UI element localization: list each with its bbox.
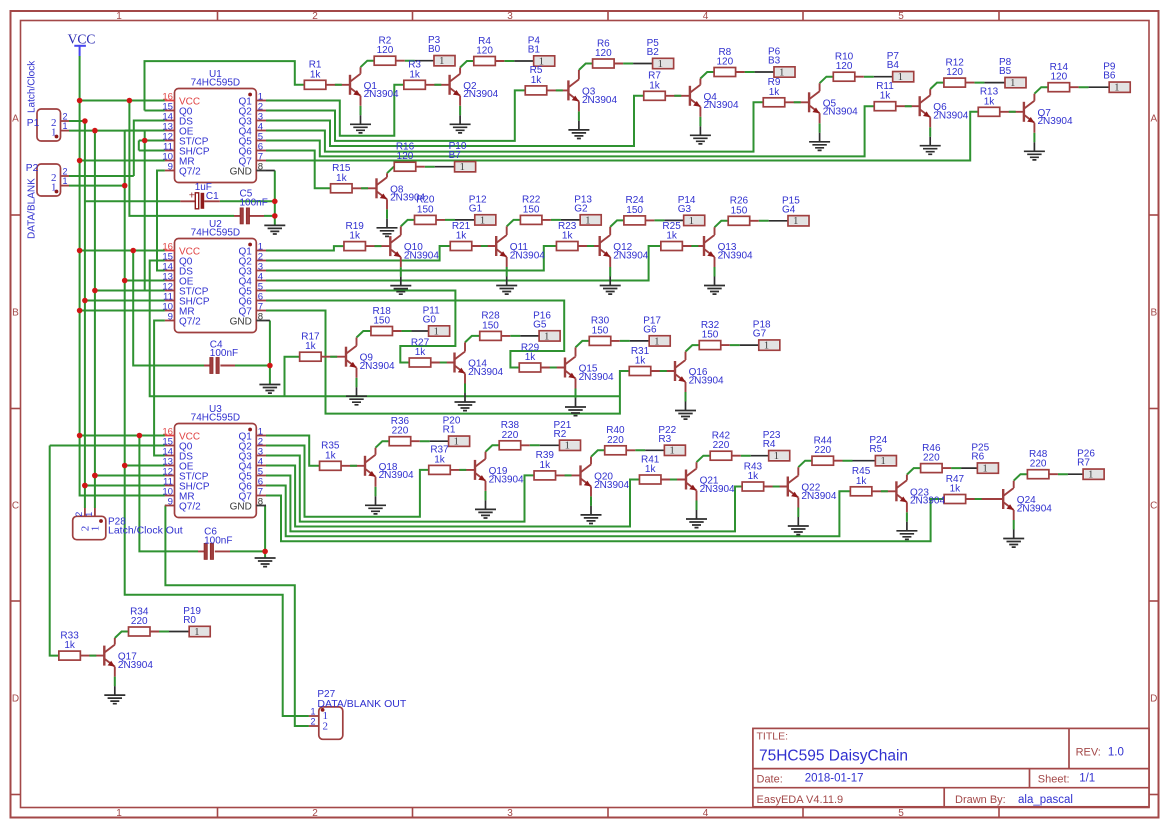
svg-text:1k: 1k bbox=[525, 352, 537, 363]
svg-text:P1: P1 bbox=[27, 118, 40, 129]
svg-text:1: 1 bbox=[793, 216, 798, 227]
svg-text:G7: G7 bbox=[753, 329, 767, 340]
svg-text:R7: R7 bbox=[1077, 458, 1090, 469]
svg-text:Latch/Clock: Latch/Clock bbox=[27, 60, 38, 113]
svg-text:VCC: VCC bbox=[68, 32, 96, 47]
svg-text:100nF: 100nF bbox=[210, 348, 238, 359]
svg-text:75HC595 DaisyChain: 75HC595 DaisyChain bbox=[759, 748, 908, 765]
svg-text:120: 120 bbox=[1051, 72, 1068, 83]
svg-text:1: 1 bbox=[1010, 78, 1015, 89]
svg-text:2N3904: 2N3904 bbox=[910, 496, 945, 507]
svg-text:1k: 1k bbox=[984, 96, 996, 107]
svg-text:1/1: 1/1 bbox=[1079, 773, 1095, 785]
svg-text:4: 4 bbox=[703, 11, 709, 22]
svg-text:2N3904: 2N3904 bbox=[489, 474, 524, 485]
svg-text:2N3904: 2N3904 bbox=[364, 89, 399, 100]
svg-text:1: 1 bbox=[898, 72, 903, 83]
svg-text:A: A bbox=[1150, 114, 1157, 125]
svg-text:1: 1 bbox=[63, 176, 68, 186]
svg-text:B5: B5 bbox=[999, 66, 1012, 77]
svg-text:2N3904: 2N3904 bbox=[718, 250, 753, 261]
svg-text:GND: GND bbox=[230, 317, 252, 328]
svg-text:1k: 1k bbox=[635, 356, 647, 367]
svg-text:G1: G1 bbox=[469, 203, 483, 214]
svg-text:1: 1 bbox=[689, 216, 694, 227]
svg-text:B1: B1 bbox=[528, 45, 541, 56]
svg-text:EasyEDA V4.11.9: EasyEDA V4.11.9 bbox=[757, 794, 844, 806]
svg-text:120: 120 bbox=[476, 46, 493, 57]
svg-text:2: 2 bbox=[63, 167, 68, 177]
svg-text:2N3904: 2N3904 bbox=[579, 372, 614, 383]
svg-text:1k: 1k bbox=[310, 69, 322, 80]
svg-text:150: 150 bbox=[702, 330, 719, 341]
svg-text:1: 1 bbox=[439, 56, 444, 67]
svg-text:Q7/2: Q7/2 bbox=[179, 317, 201, 328]
svg-text:100nF: 100nF bbox=[204, 536, 232, 547]
svg-text:1: 1 bbox=[311, 707, 316, 717]
svg-text:74HC595D: 74HC595D bbox=[191, 227, 240, 238]
svg-text:C1: C1 bbox=[206, 191, 219, 202]
svg-text:150: 150 bbox=[626, 205, 643, 216]
svg-text:1: 1 bbox=[585, 215, 590, 226]
svg-text:1: 1 bbox=[51, 181, 57, 193]
svg-text:2: 2 bbox=[312, 11, 318, 22]
svg-text:1: 1 bbox=[116, 11, 122, 22]
svg-text:120: 120 bbox=[377, 45, 394, 56]
svg-text:3: 3 bbox=[507, 808, 513, 819]
svg-text:120: 120 bbox=[397, 151, 414, 162]
svg-text:1: 1 bbox=[880, 456, 885, 467]
svg-text:2: 2 bbox=[323, 721, 329, 733]
svg-text:2: 2 bbox=[74, 512, 84, 517]
svg-text:120: 120 bbox=[836, 61, 853, 72]
svg-text:2: 2 bbox=[311, 717, 316, 727]
svg-text:1k: 1k bbox=[540, 460, 552, 471]
svg-text:220: 220 bbox=[1030, 459, 1047, 470]
svg-text:R6: R6 bbox=[971, 452, 984, 463]
svg-text:G0: G0 bbox=[423, 315, 437, 326]
svg-text:Sheet:: Sheet: bbox=[1038, 773, 1070, 785]
svg-text:B: B bbox=[1150, 308, 1157, 319]
svg-text:2N3904: 2N3904 bbox=[404, 251, 439, 262]
svg-text:220: 220 bbox=[607, 435, 624, 446]
svg-text:120: 120 bbox=[717, 57, 734, 68]
svg-text:74HC595D: 74HC595D bbox=[191, 77, 240, 88]
svg-text:74HC595D: 74HC595D bbox=[191, 412, 240, 423]
svg-text:120: 120 bbox=[946, 67, 963, 78]
svg-text:1k: 1k bbox=[769, 87, 781, 98]
svg-text:150: 150 bbox=[523, 204, 540, 215]
svg-text:REV:: REV: bbox=[1076, 746, 1101, 758]
svg-text:1k: 1k bbox=[64, 640, 76, 651]
svg-text:B2: B2 bbox=[647, 47, 660, 58]
svg-text:R0: R0 bbox=[183, 615, 196, 626]
svg-text:1: 1 bbox=[774, 451, 779, 462]
svg-text:1: 1 bbox=[764, 341, 769, 352]
svg-text:TITLE:: TITLE: bbox=[757, 731, 789, 743]
svg-text:1k: 1k bbox=[349, 231, 361, 242]
svg-text:8: 8 bbox=[258, 312, 263, 323]
svg-text:B: B bbox=[12, 308, 19, 319]
svg-text:A: A bbox=[12, 114, 19, 125]
svg-text:C: C bbox=[1150, 501, 1157, 512]
svg-text:1k: 1k bbox=[649, 80, 661, 91]
svg-text:5: 5 bbox=[898, 11, 904, 22]
svg-text:2: 2 bbox=[63, 112, 68, 122]
svg-text:1k: 1k bbox=[562, 231, 574, 242]
svg-text:2N3904: 2N3904 bbox=[1017, 503, 1052, 514]
svg-text:2N3904: 2N3904 bbox=[689, 375, 724, 386]
svg-text:220: 220 bbox=[923, 453, 940, 464]
svg-text:R1: R1 bbox=[443, 425, 456, 436]
svg-text:8: 8 bbox=[258, 497, 263, 508]
svg-text:2N3904: 2N3904 bbox=[700, 484, 735, 495]
svg-text:R3: R3 bbox=[658, 434, 671, 445]
svg-text:2N3904: 2N3904 bbox=[823, 107, 858, 118]
svg-text:2N3904: 2N3904 bbox=[1038, 116, 1073, 127]
svg-text:D: D bbox=[12, 694, 19, 705]
svg-text:1: 1 bbox=[544, 331, 549, 342]
svg-text:1: 1 bbox=[51, 126, 57, 138]
svg-text:1k: 1k bbox=[409, 69, 421, 80]
svg-text:B6: B6 bbox=[1103, 71, 1116, 82]
svg-text:Q7/2: Q7/2 bbox=[179, 167, 201, 178]
svg-text:5: 5 bbox=[898, 808, 904, 819]
svg-text:150: 150 bbox=[731, 205, 748, 216]
svg-text:C: C bbox=[12, 501, 19, 512]
svg-text:150: 150 bbox=[417, 204, 434, 215]
svg-text:Date:: Date: bbox=[757, 773, 783, 785]
svg-text:4: 4 bbox=[703, 808, 709, 819]
svg-text:2N3904: 2N3904 bbox=[613, 250, 648, 261]
svg-text:1: 1 bbox=[454, 437, 459, 448]
svg-text:1: 1 bbox=[84, 512, 94, 517]
svg-text:9: 9 bbox=[168, 497, 173, 508]
svg-text:2N3904: 2N3904 bbox=[379, 470, 414, 481]
svg-text:150: 150 bbox=[482, 320, 499, 331]
svg-text:220: 220 bbox=[131, 616, 148, 627]
svg-text:2: 2 bbox=[312, 808, 318, 819]
svg-text:220: 220 bbox=[392, 426, 409, 437]
svg-text:1: 1 bbox=[654, 336, 659, 347]
svg-text:1: 1 bbox=[63, 121, 68, 131]
svg-text:G6: G6 bbox=[643, 324, 657, 335]
svg-text:1k: 1k bbox=[456, 231, 468, 242]
svg-text:1k: 1k bbox=[336, 173, 348, 184]
svg-text:ala_pascal: ala_pascal bbox=[1018, 794, 1073, 806]
svg-text:Drawn By:: Drawn By: bbox=[955, 794, 1006, 806]
svg-text:2N3904: 2N3904 bbox=[704, 100, 739, 111]
svg-text:1: 1 bbox=[460, 162, 465, 173]
svg-text:150: 150 bbox=[592, 325, 609, 336]
svg-text:1: 1 bbox=[565, 441, 570, 452]
svg-text:100nF: 100nF bbox=[240, 198, 268, 209]
svg-text:1k: 1k bbox=[434, 454, 446, 465]
svg-text:DATA/BLANK: DATA/BLANK bbox=[27, 178, 38, 239]
svg-text:R4: R4 bbox=[763, 439, 776, 450]
svg-text:150: 150 bbox=[373, 316, 390, 327]
svg-text:220: 220 bbox=[502, 430, 519, 441]
svg-text:D: D bbox=[1150, 694, 1157, 705]
svg-text:2N3904: 2N3904 bbox=[594, 480, 629, 491]
svg-text:1: 1 bbox=[982, 464, 987, 475]
svg-text:1: 1 bbox=[194, 627, 199, 638]
svg-text:9: 9 bbox=[168, 162, 173, 173]
svg-text:1k: 1k bbox=[531, 75, 543, 86]
svg-text:G2: G2 bbox=[574, 203, 588, 214]
svg-text:1: 1 bbox=[116, 808, 122, 819]
svg-text:B7: B7 bbox=[449, 150, 462, 161]
svg-text:1k: 1k bbox=[856, 476, 868, 487]
svg-text:1k: 1k bbox=[666, 231, 678, 242]
svg-text:220: 220 bbox=[713, 440, 730, 451]
svg-text:G3: G3 bbox=[678, 204, 692, 215]
svg-text:2N3904: 2N3904 bbox=[933, 111, 968, 122]
svg-text:DATA/BLANK OUT: DATA/BLANK OUT bbox=[317, 698, 406, 710]
svg-text:B3: B3 bbox=[768, 56, 781, 67]
svg-text:2018-01-17: 2018-01-17 bbox=[805, 773, 864, 785]
svg-text:Q7/2: Q7/2 bbox=[179, 502, 201, 513]
svg-text:B4: B4 bbox=[887, 60, 900, 71]
svg-text:1k: 1k bbox=[748, 471, 760, 482]
svg-text:8: 8 bbox=[258, 162, 263, 173]
svg-text:1k: 1k bbox=[880, 91, 892, 102]
svg-text:1: 1 bbox=[434, 326, 439, 337]
svg-text:R5: R5 bbox=[869, 444, 882, 455]
svg-text:3: 3 bbox=[507, 11, 513, 22]
svg-text:2N3904: 2N3904 bbox=[463, 89, 498, 100]
svg-text:1.0: 1.0 bbox=[1108, 746, 1124, 758]
svg-text:9: 9 bbox=[168, 312, 173, 323]
svg-text:Latch/Clock Out: Latch/Clock Out bbox=[108, 525, 183, 537]
svg-text:1: 1 bbox=[90, 526, 102, 532]
svg-text:1k: 1k bbox=[415, 347, 427, 358]
svg-text:2N3904: 2N3904 bbox=[582, 95, 617, 106]
svg-text:2N3904: 2N3904 bbox=[468, 367, 503, 378]
svg-text:P2: P2 bbox=[26, 163, 39, 174]
svg-text:GND: GND bbox=[230, 502, 252, 513]
svg-text:1k: 1k bbox=[950, 484, 962, 495]
svg-text:2N3904: 2N3904 bbox=[510, 250, 545, 261]
svg-text:2N3904: 2N3904 bbox=[118, 660, 153, 671]
svg-text:120: 120 bbox=[595, 48, 612, 59]
svg-text:B0: B0 bbox=[428, 44, 441, 55]
svg-text:1: 1 bbox=[1088, 470, 1093, 481]
svg-text:2N3904: 2N3904 bbox=[360, 361, 395, 372]
svg-text:1: 1 bbox=[669, 446, 674, 457]
svg-text:GND: GND bbox=[230, 167, 252, 178]
svg-text:1k: 1k bbox=[305, 341, 317, 352]
svg-text:1k: 1k bbox=[325, 450, 337, 461]
svg-text:1: 1 bbox=[658, 59, 663, 70]
svg-text:1k: 1k bbox=[645, 464, 657, 475]
svg-text:R2: R2 bbox=[554, 429, 567, 440]
svg-text:G4: G4 bbox=[782, 204, 796, 215]
svg-text:220: 220 bbox=[814, 445, 831, 456]
svg-text:1: 1 bbox=[1114, 83, 1119, 94]
svg-text:G5: G5 bbox=[533, 319, 547, 330]
svg-text:1: 1 bbox=[480, 215, 485, 226]
svg-text:2N3904: 2N3904 bbox=[801, 491, 836, 502]
